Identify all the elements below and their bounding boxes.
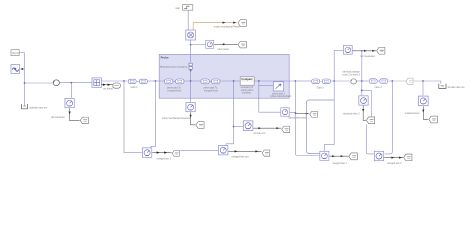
block Src1 (constant, gray) bbox=[11, 50, 19, 56]
wire tag G1t down and right into gauge G9 left bbox=[366, 124, 374, 154]
svg-text:some mechanical measure: some mechanical measure bbox=[162, 117, 191, 120]
wire P3 to node J bbox=[331, 80, 350, 82]
svg-text:activate rotor rev: activate rotor rev bbox=[30, 107, 48, 110]
gauge G3 below probe box bbox=[186, 102, 195, 111]
tag B rounded bbox=[113, 83, 121, 88]
node L junction x392.3 bbox=[391, 80, 393, 82]
wire node G down rail bbox=[226, 81, 234, 145]
block K1 (grid block) bbox=[92, 78, 101, 87]
machine block M1 bbox=[186, 30, 196, 40]
rounded box RB1 bbox=[306, 100, 334, 154]
fuse element on rail (hourglass) bbox=[189, 63, 192, 69]
stadium pair IP2 bbox=[201, 79, 209, 84]
wire M1 down + node E bbox=[190, 40, 192, 63]
tag T3 bbox=[377, 47, 385, 54]
terminator bottom-left rail bbox=[22, 104, 28, 109]
wire node M down to gauge G10 bbox=[422, 81, 424, 95]
svg-text:female rules res: female rules res bbox=[448, 86, 466, 89]
wire B2 out to tag D1 bbox=[228, 150, 261, 152]
step block S1 bbox=[183, 5, 193, 11]
svg-text:process: process bbox=[242, 91, 251, 94]
tag T1 motor mech power bbox=[238, 20, 246, 27]
gauge G10 bbox=[418, 96, 428, 106]
wire CB1 to node H bbox=[254, 80, 295, 82]
wire node C down to bottom block B1 bbox=[124, 81, 142, 153]
svg-text:measurement: measurement bbox=[405, 112, 420, 115]
tag A display bbox=[80, 117, 88, 124]
svg-text:prime internal direct: prime internal direct bbox=[270, 95, 291, 98]
gauge G1 (rad gauge) bbox=[65, 98, 74, 107]
svg-text:merged lines!: merged lines! bbox=[204, 90, 219, 93]
svg-text:Gain 3: Gain 3 bbox=[317, 87, 325, 90]
node J junction x334 bbox=[333, 80, 335, 82]
wire K1 lower output to tag B bbox=[101, 84, 112, 86]
node G junction before compact block bbox=[233, 80, 235, 82]
wire chain in box bbox=[159, 80, 240, 82]
svg-text:identical rules 2: identical rules 2 bbox=[343, 113, 360, 116]
svg-text:elec power: elec power bbox=[218, 48, 230, 51]
tag H1 bbox=[429, 116, 437, 123]
wire branch into diamond DB1 bbox=[259, 84, 274, 86]
wire G6 out to tag T4 bbox=[329, 155, 348, 157]
wire node B down to gauge G1 bbox=[70, 83, 72, 98]
wire chain to node J bbox=[295, 80, 311, 82]
gauge B2 bbox=[218, 145, 227, 154]
wire node H branch down to gauge G4 bbox=[259, 81, 281, 112]
wire G3 down to tag C1 bbox=[191, 112, 196, 125]
wire node I down rail to gauge G6 bbox=[295, 81, 319, 156]
wire orange M1 to tag T1 bbox=[193, 23, 237, 30]
svg-text:amode con: amode con bbox=[253, 132, 265, 135]
svg-text:Idc measured: Idc measured bbox=[360, 55, 375, 58]
diamond block DB1 bbox=[273, 82, 283, 91]
svg-text:merged two 1: merged two 1 bbox=[332, 162, 347, 165]
tag T5 bbox=[404, 154, 412, 161]
node F junction on chain bbox=[190, 80, 192, 82]
gauge G6 bbox=[320, 151, 329, 160]
wire P1 to box bbox=[148, 80, 159, 82]
svg-text:Gain 1: Gain 1 bbox=[131, 86, 139, 89]
wire S1 down to machine M1 bbox=[187, 10, 189, 30]
gauge G4 speed elect bbox=[281, 108, 289, 116]
tag T4 bbox=[349, 153, 358, 160]
wire P1 gap bbox=[137, 80, 139, 82]
node I2 junction on rail bbox=[295, 112, 297, 114]
svg-text:rules 2 to rules 3: rules 2 to rules 3 bbox=[343, 73, 361, 76]
gauge G5 amode bbox=[243, 121, 253, 131]
wire G5 to tag E1 bbox=[253, 127, 281, 129]
wire node I2 into tag F1 bbox=[295, 113, 308, 115]
node B junction above speed gauge bbox=[71, 82, 73, 84]
ghost tag (faded bookmark) bbox=[406, 78, 413, 84]
svg-text:merged line 1: merged line 1 bbox=[157, 158, 172, 161]
wire node E to power gauge bbox=[191, 44, 206, 46]
tag T2 elec power bbox=[238, 41, 246, 48]
wire SW2 to pair P4 bbox=[356, 80, 369, 82]
svg-text:Probe: Probe bbox=[161, 55, 169, 59]
wire Gp to tag T2 bbox=[214, 43, 237, 45]
gauge G8 bbox=[359, 96, 368, 105]
svg-text:Np=4: Np=4 bbox=[12, 51, 19, 55]
node M junction x423 bbox=[422, 80, 424, 82]
wire P4 to node M (gray segment) bbox=[389, 80, 423, 82]
node K2 junction below chain bbox=[361, 90, 363, 92]
node I junction x295.5 bbox=[295, 80, 297, 82]
svg-text:out friend: out friend bbox=[103, 87, 113, 90]
tag C1 bbox=[196, 122, 204, 129]
svg-text:merged two 2: merged two 2 bbox=[387, 162, 402, 165]
tag E1 bbox=[282, 126, 290, 132]
wire fuse to chain bbox=[190, 69, 192, 102]
wire node G2 to G5 bbox=[234, 126, 243, 128]
wire node L down and left into gauge G9 right bbox=[385, 81, 393, 154]
compact block CB1 bbox=[240, 77, 254, 85]
gauge B1 bbox=[142, 148, 151, 157]
svg-text:merged two con: merged two con bbox=[232, 155, 250, 158]
wire vertical left rail bbox=[24, 53, 26, 106]
svg-text:motor mechanical Power: motor mechanical Power bbox=[214, 26, 240, 29]
svg-text:rules 3: rules 3 bbox=[375, 86, 383, 89]
node K junction x361.5 on chain bbox=[361, 80, 363, 82]
arrowhead below fuse bbox=[190, 70, 192, 72]
tag G1t bbox=[366, 117, 374, 124]
wire B1 to tag C2 bbox=[152, 152, 171, 154]
wire G4 out to rail bbox=[290, 111, 296, 113]
stadium pair P1 bbox=[128, 79, 136, 84]
stadium pair IP1 bbox=[164, 79, 172, 84]
wire chain A to switch circle bbox=[25, 82, 54, 84]
node C junction to bottom row bbox=[123, 80, 125, 82]
svg-text:Speed elect (p/s): Speed elect (p/s) bbox=[288, 117, 306, 120]
node K0 junction on Idc line bbox=[361, 50, 363, 52]
svg-text:merged lines: merged lines bbox=[168, 90, 182, 93]
wire node K2 branch right and down into tag G1t top bbox=[362, 90, 372, 116]
wire Idc line down through chain to gauge G8 bbox=[361, 51, 363, 96]
tag D1 bbox=[262, 150, 270, 156]
wire G9 out to tag T5 bbox=[384, 157, 403, 159]
stadium pair P3 bbox=[312, 79, 320, 84]
tag F1 inside RB1 bbox=[310, 111, 318, 117]
wire G8 down to tag G1t bbox=[363, 106, 366, 121]
lavender box Probe bbox=[159, 54, 289, 98]
tag C2 bbox=[172, 150, 179, 156]
wire Src1 to node column bbox=[19, 52, 24, 54]
wire K1 to pair P1 bbox=[101, 80, 127, 82]
gauge G7 Idc bbox=[343, 45, 352, 54]
svg-text:rad converter: rad converter bbox=[51, 116, 65, 119]
wire SW1 to block K1 bbox=[59, 82, 92, 84]
block W1 (wave source) bbox=[11, 65, 20, 74]
wire G1 down to tag A bbox=[70, 108, 80, 120]
wire node J down to gauge G6 top bbox=[324, 81, 334, 151]
gauge G9 bbox=[374, 151, 383, 160]
wire node M to terminator bbox=[423, 81, 441, 84]
terminator chain end bbox=[439, 84, 446, 89]
node D junction to bottom block B1 top bbox=[155, 80, 157, 82]
node G2 junction mid rail bbox=[233, 126, 235, 128]
wire into block W1 (arrow pointing left) bbox=[22, 68, 25, 70]
svg-text:Compact: Compact bbox=[241, 77, 252, 81]
wire G7 to tag T3 bbox=[353, 50, 376, 52]
wire tag C2 to gauge B2 bbox=[180, 149, 218, 151]
node H junction after compact bbox=[258, 80, 260, 82]
wire G10 down to tag H1 bbox=[423, 106, 428, 119]
switch circle SW1 bbox=[53, 80, 59, 86]
wire node J up to Idc gauge G7 bbox=[334, 51, 343, 81]
switch circle SW2 bbox=[351, 79, 357, 84]
wire node D down into B1 top bbox=[151, 81, 156, 148]
gauge Gp elec power meter bbox=[206, 40, 214, 48]
stadium pair P4 bbox=[369, 79, 377, 84]
svg-text:step: step bbox=[175, 7, 180, 10]
node A junction left rail to chain bbox=[24, 82, 26, 84]
svg-text:Mechanical rotor resistance: Mechanical rotor resistance bbox=[160, 65, 188, 68]
